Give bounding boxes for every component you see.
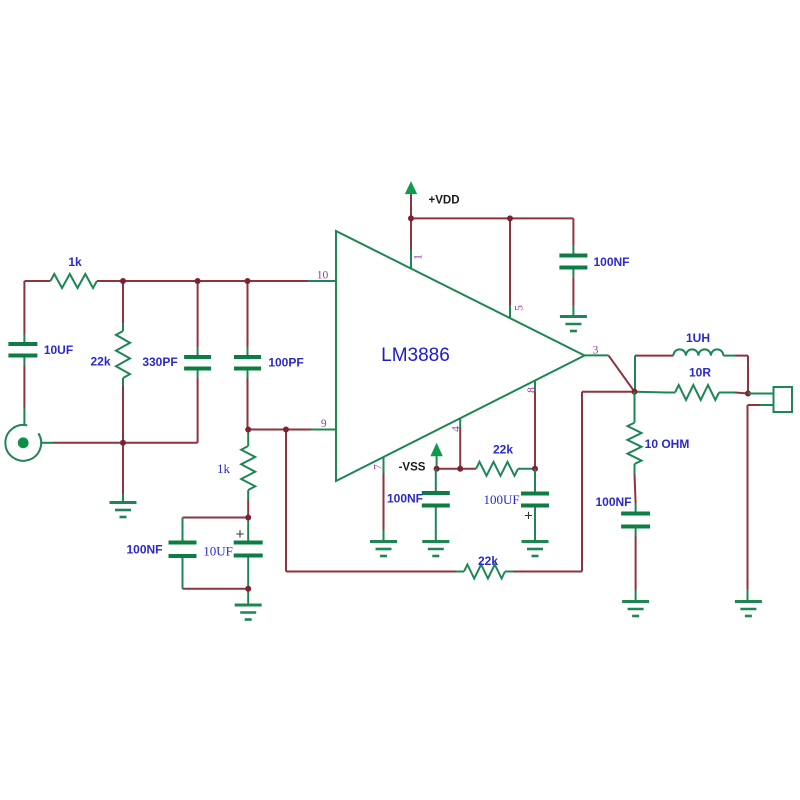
capacitor C8 100UF (521, 492, 549, 496)
svg-text:10 OHM: 10 OHM (645, 437, 690, 451)
svg-text:100NF: 100NF (593, 255, 629, 269)
junction output node (632, 389, 638, 395)
wire 10R left (635, 391, 668, 394)
svg-text:22k: 22k (478, 554, 498, 568)
power -VSS arrow (430, 443, 442, 457)
wire cap pair top (183, 517, 249, 519)
junction speaker node (745, 391, 751, 397)
wire 100NF mid vertical (435, 469, 437, 492)
wire pin 1 (410, 218, 412, 250)
ground under pin 7 (370, 540, 397, 543)
wire cap pair bottom (183, 588, 249, 590)
ground under C7 (422, 540, 449, 543)
wire 330PF vertical (197, 281, 199, 347)
wire 10 OHM top (634, 392, 636, 423)
wire VSS net (437, 468, 476, 470)
wire feedback vertical left (285, 430, 287, 572)
wire 1k lead bottom (247, 490, 249, 499)
wire cap pair right (247, 518, 249, 543)
wire 22k bottom lead (122, 378, 124, 386)
wire 10R leads (667, 392, 675, 394)
resistor R3 1k (241, 446, 255, 490)
wire VDD rail (411, 217, 573, 219)
wire output stub (585, 354, 609, 356)
resistor R6 10R (675, 385, 719, 400)
capacitor C7 100NF (422, 491, 450, 495)
ground under C9 (622, 600, 649, 603)
capacitor C9 100NF (621, 512, 650, 516)
ground under R2 (110, 501, 137, 504)
wire pin 4 (459, 418, 461, 428)
junction VDD stem (408, 215, 414, 221)
junction pin4 node (457, 466, 463, 472)
junction 1k top (245, 427, 251, 433)
svg-text:330PF: 330PF (142, 355, 177, 369)
resistor R4 22k feedback (464, 565, 505, 579)
junction feedback (283, 427, 289, 433)
resistor R5 22k (476, 462, 518, 476)
speaker connector (774, 387, 793, 412)
svg-text:10R: 10R (689, 366, 711, 380)
wire pin 7 (383, 457, 385, 473)
junction top rail R2 (120, 278, 126, 284)
resistor R2 22k (116, 331, 130, 378)
svg-text:100NF: 100NF (126, 543, 162, 557)
wire speaker top (748, 393, 774, 395)
wire inductor top left (635, 355, 673, 357)
junction bottom R2 (120, 440, 126, 446)
wire ground stem cap pair (247, 589, 249, 604)
svg-text:100PF: 100PF (268, 356, 303, 370)
ground under C8 (522, 540, 549, 543)
capacitor C3 100PF (234, 355, 261, 359)
wire C9 bottom (635, 527, 637, 537)
ground under C6 (560, 315, 587, 318)
wire pin 5 (509, 218, 511, 305)
svg-text:22k: 22k (90, 355, 110, 369)
wire input top rail (24, 280, 50, 282)
svg-text:10UF: 10UF (44, 343, 73, 357)
svg-text:7: 7 (373, 464, 385, 470)
wire left vertical input (23, 281, 25, 334)
capacitor C5 10UF (234, 541, 263, 545)
wire 100PF vertical (247, 281, 249, 347)
svg-text:100NF: 100NF (387, 492, 423, 506)
capacitor C6 100NF (559, 254, 587, 258)
svg-text:LM3886: LM3886 (381, 345, 450, 366)
junction cap pair bottom (245, 586, 251, 592)
wire 10 OHM bottom (634, 464, 636, 474)
capacitor C4 100NF (169, 541, 197, 545)
wire 22k top lead (122, 281, 124, 323)
junction VSS node (434, 466, 440, 472)
svg-text:10UF: 10UF (203, 544, 233, 559)
capacitor C2 330PF (184, 355, 211, 359)
svg-text:4: 4 (451, 426, 463, 432)
wire pin 9 net (248, 429, 312, 431)
svg-text:-VSS: -VSS (399, 462, 426, 474)
junction top rail C3 (245, 278, 251, 284)
svg-text:1: 1 (413, 254, 425, 260)
input connector J1 (5, 425, 41, 461)
wire input bottom (41, 442, 53, 444)
svg-text:9: 9 (321, 418, 327, 430)
capacitor C1 10UF (8, 342, 37, 346)
power +VDD arrow (405, 181, 417, 194)
svg-text:1UH: 1UH (686, 331, 710, 345)
svg-text:1k: 1k (217, 461, 231, 476)
resistor R1 1k (50, 274, 97, 288)
wire output node up (634, 356, 636, 392)
svg-text:8: 8 (526, 387, 538, 393)
svg-text:+: + (236, 526, 245, 543)
resistor R7 10 OHM (628, 423, 642, 464)
junction VDD pin5 (507, 215, 513, 221)
op-amp U1 LM3886 (336, 231, 585, 481)
wire feedback bottom (286, 571, 456, 573)
svg-text:5: 5 (514, 305, 526, 311)
svg-text:22k: 22k (493, 443, 513, 457)
wire VSS stem (436, 456, 438, 469)
wire cap pair left (182, 518, 184, 543)
wire pin 8 (534, 380, 536, 392)
svg-text:+VDD: +VDD (429, 195, 460, 207)
wire feedback vertical right (581, 392, 583, 572)
svg-text:10: 10 (317, 270, 329, 282)
svg-text:1k: 1k (68, 255, 82, 269)
wire VDD stem (410, 194, 412, 218)
wire 100UF vertical (534, 469, 536, 493)
svg-text:100NF: 100NF (595, 495, 631, 509)
inductor L1 1UH (673, 349, 723, 355)
wire 100NF TR vertical (572, 218, 574, 245)
svg-text:100UF: 100UF (483, 492, 519, 507)
ground right (735, 600, 762, 603)
wire output node left (582, 391, 635, 393)
svg-text:+: + (524, 508, 533, 525)
wire 1k lead top (247, 430, 249, 447)
wire inductor right (723, 355, 735, 357)
junction cap pair top (245, 515, 251, 521)
wire output diagonal (609, 355, 635, 391)
junction top rail C2 (195, 278, 201, 284)
wire speaker bottom (760, 404, 774, 406)
junction pin8 node (532, 466, 538, 472)
ground under cap pair (235, 604, 262, 607)
